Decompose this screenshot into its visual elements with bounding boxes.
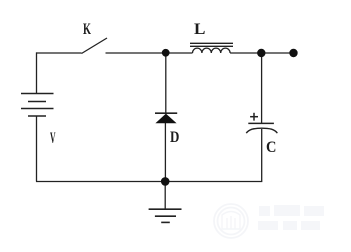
wire bottom node down to ground bbox=[164, 182, 166, 210]
wire node B to output terminal dot bbox=[261, 52, 293, 54]
capacitor C top plate bbox=[248, 122, 274, 124]
inductor L core line upper bbox=[190, 42, 233, 44]
ground bar 3 (shortest) bbox=[161, 221, 170, 223]
watermark text row 2 bbox=[258, 221, 278, 230]
capacitor C plus sign vertical stroke bbox=[253, 113, 255, 121]
output terminal dot bbox=[289, 49, 297, 57]
battery V plate 3 long bbox=[21, 108, 54, 110]
label L (inductor) bbox=[194, 22, 205, 38]
node B junction dot bbox=[257, 49, 265, 57]
capacitor C bottom curved plate bbox=[246, 128, 277, 133]
watermark text row 1 bbox=[258, 205, 324, 230]
ground bar 1 (longest) bbox=[149, 208, 182, 210]
wire node A down to diode D cathode bbox=[165, 53, 167, 113]
wire top-left horizontal (battery top to switch K left contact) bbox=[36, 52, 82, 54]
inductor L coil (4 humps) bbox=[193, 48, 231, 53]
diode D triangle (anode, pointing up) bbox=[155, 114, 176, 124]
wire left vertical (top corner down to battery + plate) bbox=[36, 52, 38, 93]
label V (battery) bbox=[50, 131, 56, 147]
watermark logo circle bbox=[214, 204, 248, 238]
label D (diode) bbox=[170, 130, 179, 146]
battery V plate 1 long (+) bbox=[21, 93, 54, 95]
wire node A to inductor left lead bbox=[166, 52, 193, 54]
wire switch right contact to node A bbox=[106, 52, 166, 54]
wire diode D anode down to bottom node bbox=[164, 123, 166, 182]
ground bar 2 bbox=[155, 215, 176, 217]
wire inductor right lead to node B bbox=[230, 52, 261, 54]
label C (capacitor) bbox=[266, 140, 276, 156]
wire node B down to capacitor C top plate bbox=[261, 53, 263, 123]
switch K blade bbox=[82, 38, 108, 54]
diode D cathode bar bbox=[155, 112, 177, 114]
inductor L core line lower bbox=[190, 45, 233, 47]
wire bottom horizontal (bottom-left corner to capacitor bottom) bbox=[36, 181, 262, 183]
label K (switch) bbox=[83, 22, 91, 38]
wire battery - plate down to bottom-left corner bbox=[36, 116, 38, 182]
bottom node junction dot bbox=[161, 177, 170, 186]
battery V plate 2 short bbox=[28, 101, 46, 103]
node A junction dot bbox=[162, 49, 170, 57]
capacitor C plus sign horizontal stroke bbox=[250, 116, 258, 118]
wire capacitor C bottom plate down to bottom wire bbox=[261, 129, 263, 182]
battery V plate 4 short (-) bbox=[28, 115, 46, 117]
